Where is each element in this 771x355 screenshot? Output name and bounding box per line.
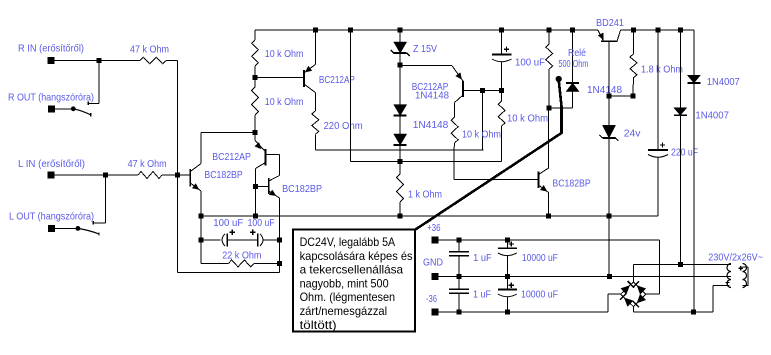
svg-text:10 k Ohm: 10 k Ohm xyxy=(462,129,501,141)
svg-text:R OUT (hangszóróra): R OUT (hangszóróra) xyxy=(8,92,94,104)
svg-text:BD241: BD241 xyxy=(596,17,624,29)
svg-text:10000 uF: 10000 uF xyxy=(521,289,558,301)
svg-text:L OUT (hangszóróra): L OUT (hangszóróra) xyxy=(9,211,94,223)
svg-text:BC212AP: BC212AP xyxy=(319,74,355,86)
svg-text:10 k Ohm: 10 k Ohm xyxy=(507,113,548,125)
svg-text:1N4148: 1N4148 xyxy=(587,84,622,96)
svg-text:BC182BP: BC182BP xyxy=(204,169,242,181)
svg-text:1 uF: 1 uF xyxy=(473,252,492,264)
svg-text:22 k Ohm: 22 k Ohm xyxy=(222,250,262,262)
svg-text:+36: +36 xyxy=(427,222,441,234)
svg-text:1 k Ohm: 1 k Ohm xyxy=(408,189,442,201)
svg-text:500 Ohm: 500 Ohm xyxy=(558,58,588,70)
svg-text:L IN (erősítőről): L IN (erősítőről) xyxy=(18,158,85,170)
svg-text:1N4148: 1N4148 xyxy=(415,90,449,102)
svg-text:kapcsolására képes és: kapcsolására képes és xyxy=(300,249,413,263)
svg-text:nagyobb, mint 500: nagyobb, mint 500 xyxy=(300,276,389,290)
svg-text:GND: GND xyxy=(423,257,443,269)
svg-text:1 uF: 1 uF xyxy=(473,289,491,301)
svg-text:47 k Ohm: 47 k Ohm xyxy=(130,44,169,56)
svg-text:a tekercsellenállása: a tekercsellenállása xyxy=(300,263,404,277)
svg-text:BC212AP: BC212AP xyxy=(212,151,251,163)
svg-text:zárt/nemesgázzal: zárt/nemesgázzal xyxy=(300,304,388,318)
svg-text:R IN (erősítőről): R IN (erősítőről) xyxy=(18,43,84,55)
svg-text:230V/2x26V~: 230V/2x26V~ xyxy=(708,252,763,264)
svg-text:100 uF: 100 uF xyxy=(248,217,275,229)
svg-text:10000 uF: 10000 uF xyxy=(522,252,558,264)
svg-text:1.8 k Ohm: 1.8 k Ohm xyxy=(641,64,683,76)
svg-text:DC24V, legalább 5A: DC24V, legalább 5A xyxy=(300,235,396,249)
svg-text:10 k Ohm: 10 k Ohm xyxy=(265,48,304,60)
svg-text:-36: -36 xyxy=(426,293,437,305)
svg-text:1N4148: 1N4148 xyxy=(413,119,449,131)
svg-text:100 uF: 100 uF xyxy=(213,217,243,229)
svg-text:220 Ohm: 220 Ohm xyxy=(324,120,363,132)
svg-text:24v: 24v xyxy=(624,128,641,140)
svg-text:1N4007: 1N4007 xyxy=(707,76,740,88)
svg-text:BC182BP: BC182BP xyxy=(552,178,590,190)
svg-text:Z 15V: Z 15V xyxy=(413,43,437,55)
svg-text:100 uF: 100 uF xyxy=(515,57,545,69)
svg-text:töltött): töltött) xyxy=(300,318,337,332)
svg-text:BC182BP: BC182BP xyxy=(282,183,322,195)
svg-text:1N4007: 1N4007 xyxy=(695,110,729,122)
svg-text:Ohm. (légmentesen: Ohm. (légmentesen xyxy=(300,290,396,304)
svg-text:47 k Ohm: 47 k Ohm xyxy=(128,158,167,170)
svg-text:10 k Ohm: 10 k Ohm xyxy=(265,96,304,108)
